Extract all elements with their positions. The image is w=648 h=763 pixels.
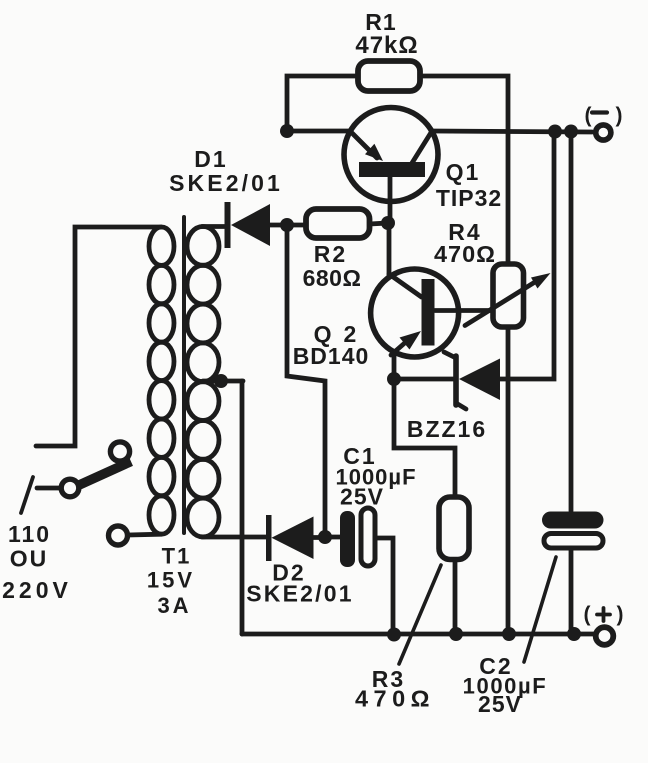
terminal: primary bottom [109,526,128,545]
resistor R3 [439,497,469,560]
svg-text:TIP32: TIP32 [436,185,502,211]
node: Q1 base / R2 right junction [381,216,395,230]
switch lever [77,462,131,487]
terminal (+) output [596,627,614,645]
node: R4 lead on rail [502,627,516,641]
transistor Q2 [371,269,490,357]
svg-text:T1: T1 [162,544,192,569]
svg-text:(: ( [584,603,591,626]
svg-text:(: ( [585,104,592,127]
diode D1 [225,202,288,248]
switch pole terminal [110,442,129,461]
wire: primary top lead to mains [36,227,161,446]
node: center tap junction [214,374,228,388]
wire: zener node down and over to R3 [394,379,455,497]
potentiometer R4 [465,264,551,327]
transistor Q1 [344,108,438,224]
wire: negative rail right segment [432,131,592,132]
wire: Q1 base stem to Q2 collector [387,223,392,277]
zener diode BZZ16 [394,352,500,409]
wire: C2 top lead from rail [569,131,574,511]
node: negative rail / Q1 emitter junction [280,124,294,138]
wire: R1 right lead, down to pot R4 top [420,76,508,264]
svg-text:BD140: BD140 [293,343,370,369]
transformer secondary winding [187,227,219,537]
node: C1 lead on rail [387,628,401,642]
wire: riser from rail down to zener D3 [500,131,554,379]
svg-text:3A: 3A [157,593,191,618]
svg-text:): ) [616,104,623,127]
svg-text:SKE2/01: SKE2/01 [246,581,353,607]
capacitor C1 [325,508,393,634]
wire: R1 left lead and corner down to negative-rail node [287,76,358,131]
svg-text:): ) [617,603,624,626]
svg-text:470Ω: 470Ω [434,241,496,267]
terminal (-) output [596,125,611,140]
wire: Q2 emitter lead [392,352,397,379]
wire: center tap riser down to positive rail [240,381,245,634]
svg-text:47kΩ: 47kΩ [355,32,418,59]
node: R3 lead on rail [449,627,463,641]
svg-text:R2: R2 [314,241,347,267]
wire: R3 bottom lead [453,560,458,635]
node: Q2 emitter / zener junction [387,372,401,386]
svg-text:BZZ16: BZZ16 [407,416,487,442]
capacitor C2 [542,512,604,635]
svg-text:25V: 25V [478,691,522,717]
node: rail junction to C2 riser [564,125,578,139]
pointer line to R3 [399,565,441,664]
transformer T1 core [182,217,186,533]
wire: primary bottom lead [128,532,161,538]
svg-text:OU: OU [10,546,49,572]
node: C2 lead on rail [567,627,581,641]
wire: secondary bottom lead to D2 [202,535,266,540]
pointer slash near 110 label [21,477,33,513]
transformer primary winding [149,227,174,534]
svg-text:15V: 15V [147,568,195,593]
node: rail junction to zener riser [548,125,562,139]
switch pivot terminal [61,479,79,497]
svg-text:110: 110 [8,521,51,547]
wire: switch lead [37,486,61,491]
node: C1 / D2 junction [318,530,332,544]
svg-text:680Ω: 680Ω [303,265,362,291]
positive bottom rail [242,632,596,637]
resistor R1 [358,61,420,91]
svg-text:25V: 25V [340,484,384,510]
svg-text:Q1: Q1 [446,159,481,185]
wire: jog from junction down to C1 node [287,225,325,536]
node: D1 cathode / R2 left junction [280,218,294,232]
svg-text:470Ω: 470Ω [355,686,435,712]
diode D2 [266,515,325,561]
pointer line to C2 [524,557,556,662]
resistor R2 [287,209,388,238]
svg-text:SKE2/01: SKE2/01 [169,170,283,196]
svg-text:220V: 220V [2,577,72,603]
wire: negative rail left segment to Q1 [287,129,351,134]
wire: R4 bottom lead down to positive rail [506,327,511,634]
wire: secondary top lead to D1 [202,224,225,229]
svg-text:D1: D1 [194,146,227,172]
wire: center tap [203,379,243,384]
